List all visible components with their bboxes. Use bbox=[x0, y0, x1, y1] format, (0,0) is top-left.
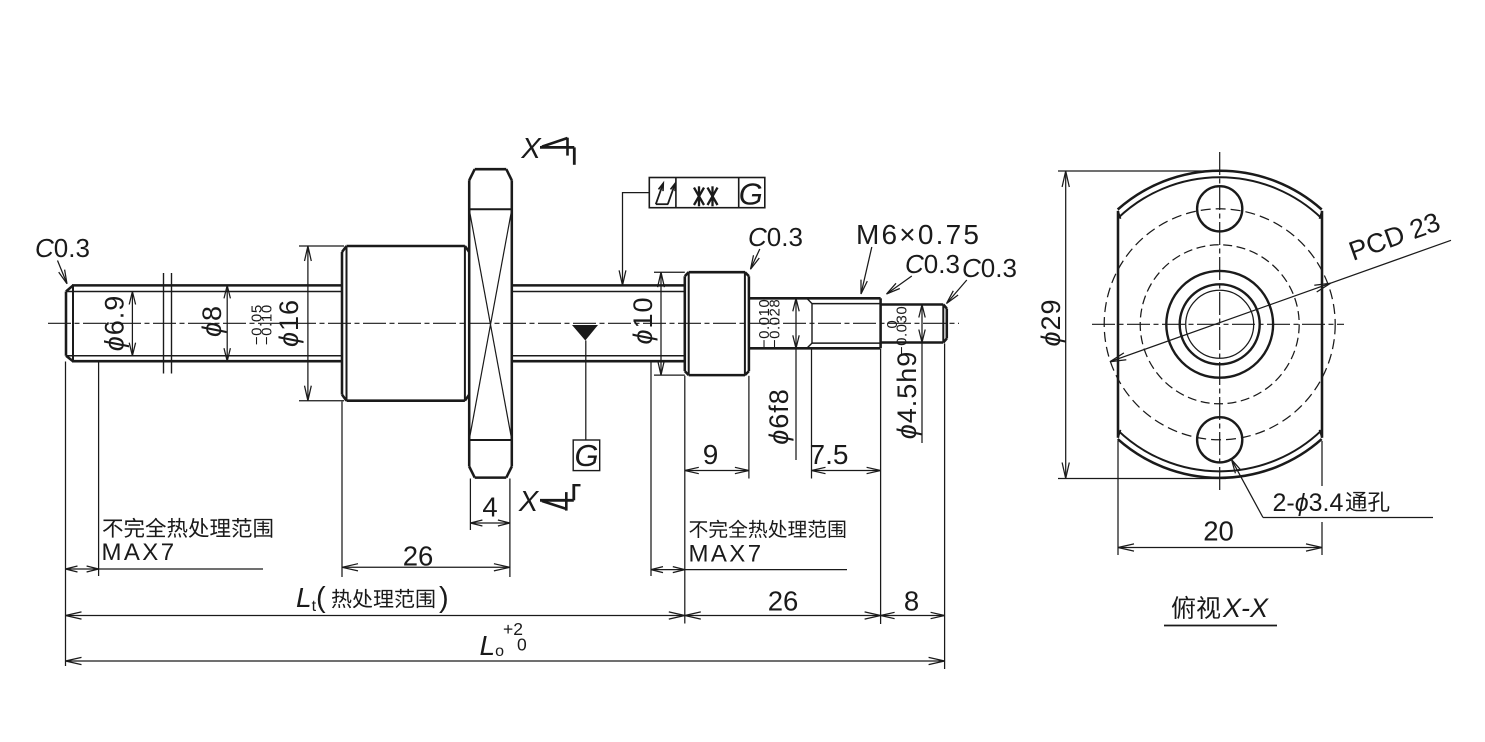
callout 2-phi3.4 through holes bbox=[1232, 460, 1434, 518]
svg-text:4: 4 bbox=[482, 492, 497, 523]
svg-text:C0.3: C0.3 bbox=[905, 249, 960, 279]
section cutting arrow top bbox=[540, 138, 574, 165]
boxed letter G bbox=[573, 438, 600, 473]
asterisks ** in box cell 2 bbox=[694, 186, 718, 206]
callout C0.3 at thread end bbox=[887, 249, 960, 294]
label phi8 bbox=[197, 305, 227, 337]
break lines (shaft shortened) bbox=[164, 273, 172, 374]
section mark X top (letter) bbox=[520, 133, 542, 165]
dimension phi4.5h9 line with arrows bbox=[919, 305, 925, 444]
label phi16 bbox=[274, 299, 304, 347]
label phi10 bbox=[628, 296, 658, 344]
dimension 20 across flats bbox=[1118, 441, 1322, 555]
svg-text:2-ϕ3.4: 2-ϕ3.4 bbox=[1273, 489, 1344, 517]
section mark X bottom (letter) bbox=[518, 486, 540, 518]
callout M6x0.75 thread bbox=[856, 219, 981, 294]
callout C0.3 at tip bbox=[947, 253, 1017, 304]
extension line at collar right face bbox=[748, 376, 750, 479]
dimension phi8 bbox=[224, 285, 230, 361]
bottom bolt hole phi3.4 bbox=[1197, 417, 1242, 462]
svg-text:20: 20 bbox=[1203, 516, 1234, 547]
flange top view outer arcs (phi29) bbox=[1118, 171, 1322, 478]
svg-text:): ) bbox=[439, 582, 449, 614]
flange flat boundary lines bbox=[469, 209, 512, 440]
PCD leader line through center bbox=[1110, 240, 1451, 361]
dimension 9 (collar width) bbox=[685, 439, 749, 474]
svg-text:−0.10: −0.10 bbox=[259, 304, 276, 345]
label phi4.5h9 bbox=[892, 351, 922, 440]
letter G in box cell 3 bbox=[739, 177, 763, 212]
flange top view chamfer arcs bbox=[1118, 177, 1322, 471]
M6 thread root lines bbox=[812, 304, 881, 344]
shaft left end face with chamfer C0.3 bbox=[66, 285, 73, 361]
step face between M6 thread and phi4.5h9 tip bbox=[879, 298, 882, 348]
dimension 26 (cylinder+flange) bbox=[342, 541, 510, 572]
phi6f8 journal and M6 thread major diameter lines bbox=[749, 298, 881, 348]
dimension 8 (tip length) bbox=[881, 586, 945, 619]
svg-text:MAX7: MAX7 bbox=[102, 539, 177, 566]
phi10 collar body bbox=[685, 272, 749, 375]
top bolt hole phi3.4 bbox=[1197, 186, 1242, 231]
horizontal centerline of top view bbox=[1092, 323, 1344, 325]
phi4.5h9 tip section bbox=[881, 305, 947, 343]
left ball-screw section thread root lines (phi6.9) bbox=[66, 292, 342, 356]
middle ball-screw section root lines bbox=[512, 292, 685, 356]
dimension phi29 bbox=[1058, 171, 1226, 479]
svg-text:X: X bbox=[520, 133, 542, 165]
svg-text:ϕ16: ϕ16 bbox=[274, 299, 304, 347]
right incomplete heat treatment zone MAX7 dimension bbox=[651, 567, 847, 573]
svg-text:8: 8 bbox=[904, 586, 919, 617]
surface finish symbol box bbox=[649, 178, 765, 208]
svg-text:0: 0 bbox=[517, 635, 527, 655]
svg-text:9: 9 bbox=[703, 439, 719, 470]
left label incomplete heat treatment zone bbox=[102, 518, 273, 566]
dimension phi6f8 line with arrows bbox=[793, 298, 799, 460]
dimension 26 (right section) bbox=[685, 586, 881, 620]
dimension Lo overall length with tolerance +2/0 bbox=[66, 619, 945, 665]
extension line flange right bbox=[509, 479, 511, 578]
svg-text:ϕ4.5h9: ϕ4.5h9 bbox=[892, 351, 922, 440]
flange cross (flat surfaces marking) bbox=[469, 209, 512, 440]
tolerance for phi16 (-0.05/-0.10) bbox=[248, 304, 275, 345]
left ball-screw section outer diameter lines (phi8) bbox=[72, 285, 342, 361]
bolt circle PCD 23 (dashed) bbox=[1104, 209, 1335, 440]
label phi6f8 bbox=[764, 388, 794, 445]
svg-text:X: X bbox=[518, 486, 540, 518]
screw root circle in top view bbox=[1186, 290, 1254, 358]
extension line left MAX7 boundary bbox=[98, 362, 100, 577]
extension line at M6 thread start bbox=[811, 349, 813, 479]
phi16 cylinder hidden circle (dashed) bbox=[1140, 245, 1299, 404]
svg-text:MAX7: MAX7 bbox=[689, 541, 764, 568]
tolerance for phi6f8 (-0.010/-0.028) bbox=[756, 299, 783, 348]
dimension 4 (flange thickness) bbox=[470, 492, 510, 527]
svg-text:−0.030: −0.030 bbox=[894, 306, 911, 355]
label phi6.9 bbox=[100, 295, 130, 352]
svg-text:C0.3: C0.3 bbox=[748, 222, 803, 252]
svg-text:ϕ29: ϕ29 bbox=[1036, 298, 1066, 346]
vertical centerline of top view bbox=[1219, 152, 1221, 492]
extension line flange left bbox=[469, 479, 471, 531]
screw shoulder circle in top view bbox=[1180, 284, 1260, 364]
leader line from triangle to G box bbox=[585, 341, 587, 441]
svg-text:7.5: 7.5 bbox=[810, 439, 849, 470]
svg-text:26: 26 bbox=[403, 541, 434, 572]
svg-text:M6×0.75: M6×0.75 bbox=[856, 219, 981, 250]
middle ball-screw section outer lines bbox=[512, 285, 685, 361]
svg-text:G: G bbox=[575, 438, 599, 473]
dimension Lt heat treatment range bbox=[66, 582, 685, 619]
left incomplete heat treatment zone MAX7 dimension bbox=[66, 566, 264, 572]
flange side view outline (phi29 with flats) bbox=[469, 169, 512, 477]
phi16 cylinder body bbox=[342, 246, 469, 401]
svg-text:C0.3: C0.3 bbox=[962, 253, 1017, 283]
section cutting arrow bottom bbox=[540, 484, 581, 511]
dimension 7.5 (thread length) bbox=[810, 439, 881, 474]
extension line at shaft right end bbox=[944, 344, 946, 670]
svg-text:ϕ6.9: ϕ6.9 bbox=[100, 295, 130, 352]
label PCD 23 bbox=[1345, 207, 1444, 267]
extension line at collar left face bbox=[684, 376, 686, 624]
svg-text:Lt(: Lt( bbox=[296, 582, 326, 615]
extension line at shaft left end bbox=[65, 362, 67, 667]
svg-text:ϕ10: ϕ10 bbox=[628, 296, 658, 344]
right label incomplete heat treatment zone bbox=[689, 520, 846, 568]
leader from surface box to screw surface bbox=[619, 193, 649, 286]
svg-text:G: G bbox=[739, 177, 763, 212]
callout C0.3 top left bbox=[35, 233, 90, 284]
svg-text:26: 26 bbox=[768, 586, 799, 617]
extension line at thread/tip step bbox=[880, 349, 882, 624]
svg-text:−0.028: −0.028 bbox=[767, 299, 784, 348]
dimension phi16 with extension lines bbox=[299, 246, 344, 401]
extension line right MAX7 boundary bbox=[650, 362, 652, 577]
centerline of shaft bbox=[48, 322, 959, 324]
svg-text:ϕ6f8: ϕ6f8 bbox=[764, 388, 794, 445]
tolerance for phi4.5h9 (0/-0.030) bbox=[884, 306, 911, 355]
extension line at phi16 cylinder left bbox=[341, 402, 343, 578]
view label top view X-X bbox=[1164, 593, 1277, 626]
label phi29 bbox=[1036, 298, 1066, 346]
svg-text:C0.3: C0.3 bbox=[35, 233, 90, 263]
M6 thread start chamfer bbox=[807, 298, 812, 348]
dimension phi10 (collar) with extension lines bbox=[654, 272, 685, 375]
grinding target triangle on screw bbox=[572, 325, 598, 341]
roughness marks in box cell 1 bbox=[656, 183, 676, 204]
svg-text:ϕ8: ϕ8 bbox=[197, 305, 227, 337]
callout C0.3 at collar bbox=[748, 222, 803, 269]
dimension phi6.9 bbox=[129, 292, 135, 356]
screw outer circle in top view bbox=[1166, 271, 1273, 378]
svg-text:X-X: X-X bbox=[1222, 593, 1269, 623]
flange flats (width 20) bbox=[1118, 211, 1322, 438]
